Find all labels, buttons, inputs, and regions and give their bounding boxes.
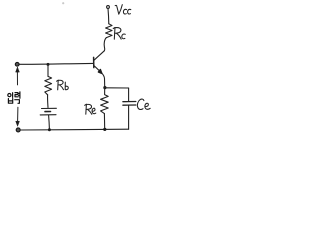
label Rb [57,80,69,90]
battery VBB [42,107,57,109]
wire ground rail [20,128,128,131]
Vcc terminal [107,6,110,9]
input terminal top [15,62,19,66]
wire Rb top lead [47,65,49,77]
label 입력 (input) [8,92,20,104]
scan speck [62,2,64,4]
resistor Re [101,88,109,114]
wire emitter junction to Ce branch [105,87,129,89]
resistor Rb [45,76,52,94]
label Re [85,104,96,114]
wire Vcc to Rc [107,9,110,24]
node battery-rail junction [48,128,51,131]
label Vcc [115,5,131,15]
input arrow up [16,72,18,85]
node emitter junction [103,86,106,89]
label Ce [137,99,150,109]
label Rc [113,27,125,39]
wire Rc to collector [104,38,106,51]
transistor Q1 [93,57,95,67]
wire base (input to transistor base) [19,62,93,65]
node Rb tap on base wire [47,63,50,66]
input arrow down [17,107,19,121]
input terminal bottom [16,128,20,132]
node Re-rail junction [103,128,106,131]
wire emitter to junction [102,73,105,86]
wire battery to rail [48,115,51,129]
wire Re to rail [103,114,105,130]
resistor Rc [106,24,112,38]
capacitor Ce [128,88,130,101]
wire Rb to battery [47,95,49,108]
